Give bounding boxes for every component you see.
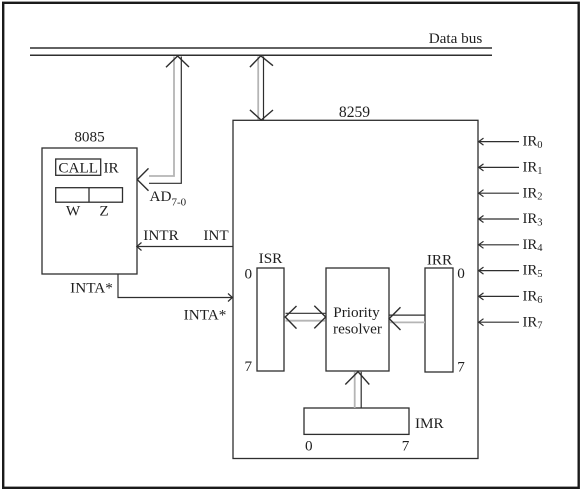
IR6 input wire xyxy=(479,295,520,297)
bus arrowhead right at resolver xyxy=(314,306,325,329)
bus arrowhead left at resolver xyxy=(389,307,400,330)
svg-text:resolver: resolver xyxy=(333,321,382,338)
AD7-0 bus arrow (grey shadow line) xyxy=(149,57,174,177)
IMR register box xyxy=(304,408,409,434)
IMR to resolver bus arrow (black line) xyxy=(360,372,362,408)
data bus (double line) xyxy=(30,48,492,55)
svg-text:INT: INT xyxy=(203,227,229,244)
Priority resolver box xyxy=(326,268,389,371)
ISR to resolver bus arrow (grey shadow line) xyxy=(286,320,326,322)
svg-text:INTA*: INTA* xyxy=(70,280,113,297)
data bus to 8259 bus arrow (black line) xyxy=(263,57,265,120)
IR3 input wire xyxy=(479,218,520,220)
svg-text:7: 7 xyxy=(457,359,465,376)
CALL instruction register box xyxy=(56,159,101,175)
svg-text:ISR: ISR xyxy=(259,250,284,267)
svg-text:Priority: Priority xyxy=(333,304,380,321)
bus arrowhead left at ISR xyxy=(285,306,296,329)
AD7-0 bus arrowhead at 8085 (left) xyxy=(137,168,148,190)
AD7-0 bus arrowhead at data bus (up) xyxy=(166,56,189,67)
8259 PIC box xyxy=(233,120,478,458)
svg-text:IR: IR xyxy=(104,159,120,176)
8085 CPU box xyxy=(42,148,137,274)
svg-text:Z: Z xyxy=(99,203,108,220)
svg-text:7: 7 xyxy=(402,437,410,454)
IR2 input wire xyxy=(479,192,520,194)
W/Z register pair box xyxy=(56,188,123,203)
svg-text:CALL: CALL xyxy=(58,159,98,176)
AD7-0 bus arrow (black line) xyxy=(149,57,181,184)
svg-text:7: 7 xyxy=(245,358,253,375)
svg-text:IMR: IMR xyxy=(415,415,445,432)
svg-text:0: 0 xyxy=(305,437,313,454)
IRR register box xyxy=(425,268,453,372)
svg-text:8085: 8085 xyxy=(74,129,104,146)
IR0 input wire xyxy=(479,141,520,143)
bus arrowhead up at data bus xyxy=(250,56,273,67)
IRR to resolver bus arrow (grey shadow line) xyxy=(390,321,426,323)
data bus to 8259 bus arrow (grey shadow line) xyxy=(257,57,259,120)
INT wire from 8259 to 8085 xyxy=(137,246,233,248)
svg-text:0: 0 xyxy=(245,266,253,283)
svg-text:Data bus: Data bus xyxy=(429,30,483,47)
INTA* wire from 8085 to 8259 xyxy=(118,274,232,298)
INT arrowhead at 8085 (left) xyxy=(137,243,142,251)
svg-text:0: 0 xyxy=(457,265,465,282)
IR1 input wire xyxy=(479,166,520,168)
svg-text:IRR: IRR xyxy=(427,252,453,269)
IMR to resolver bus arrow (grey shadow line) xyxy=(354,372,356,408)
svg-text:W: W xyxy=(66,203,81,220)
IR4 input wire xyxy=(479,244,520,246)
bus arrowhead down at 8259 xyxy=(250,110,273,120)
INTA* arrowhead at 8259 (right) xyxy=(228,294,232,302)
svg-text:INTA*: INTA* xyxy=(184,307,227,324)
ISR register box xyxy=(257,268,284,371)
IR5 input wire xyxy=(479,270,520,272)
svg-text:INTR: INTR xyxy=(143,227,179,244)
bus arrowhead up at resolver xyxy=(345,372,369,385)
svg-text:8259: 8259 xyxy=(339,104,370,121)
IR7 input wire xyxy=(479,321,520,323)
ISR to resolver bus arrow (black line) xyxy=(286,312,326,314)
IRR to resolver bus arrow (black line) xyxy=(390,314,426,316)
